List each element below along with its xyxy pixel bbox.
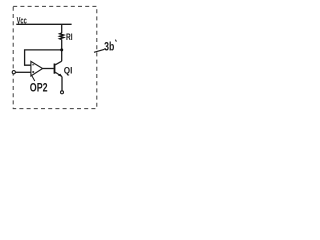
op-amp OP2 triangle [31,61,43,76]
op-amp minus mark [32,64,34,66]
svg-text:QI: QI [64,66,73,76]
Q1 collector stroke [55,61,61,65]
Vcc supply wire [16,23,71,25]
svg-text:RI: RI [66,32,73,43]
feedback wire from collector node to op-amp inverting input [25,50,62,65]
transistor Q1 base bar [54,64,56,74]
dashed enclosure border [13,6,97,108]
wire: R1 top lead [61,24,63,33]
wire: input to op-amp non-inverting input [15,71,31,73]
wire: emitter down lead [61,77,63,91]
Q1 emitter arrowhead [58,74,62,77]
Q1 emitter stroke with arrow [55,72,62,76]
input terminal circle [12,71,15,74]
svg-text:OP2: OP2 [30,81,48,95]
op-amp plus mark [32,71,34,73]
leader line from OP2 label to op-amp [31,75,35,81]
resistor R1 [60,33,64,40]
junction node dot [60,48,63,51]
prime mark of 3b' [115,40,116,42]
svg-text:3b: 3b [104,39,114,53]
wire: op-amp output to Q1 base [43,68,54,70]
wire: R1 bottom lead / collector vertical [61,40,63,62]
leader line for port 3b' [94,49,105,52]
emitter terminal circle [61,91,64,94]
